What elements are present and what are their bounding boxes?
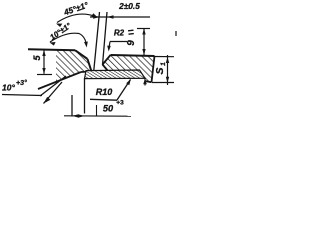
dimension 9 text rotated: [126, 40, 137, 46]
R10 underline: [90, 98, 117, 101]
right plate hatched slab: [103, 55, 155, 82]
svg-text:50: 50: [103, 104, 114, 114]
svg-text:+3: +3: [116, 100, 124, 107]
gap extension line left: [94, 12, 100, 71]
dimension 5: vertical line with arrows: [37, 50, 52, 75]
svg-text:R10: R10: [96, 87, 113, 97]
left plate sloped underside: [38, 72, 81, 89]
dimension 50 extension line right: [84, 78, 86, 113]
angle 10 deg arc dimension: [50, 33, 88, 47]
right plate right edge: [152, 56, 155, 82]
R2 leader: [107, 42, 127, 52]
stray tick right edge: [175, 31, 177, 36]
dimension 2 +-0.5 line with arrows: [90, 15, 150, 18]
left plate 45 deg bevel: [75, 50, 88, 59]
S1 dimension: [152, 55, 174, 85]
gap extension line right: [103, 12, 108, 65]
S1 text rotated: [154, 62, 167, 75]
angle 10+3 leader: [40, 76, 66, 104]
svg-text:R2: R2: [114, 29, 125, 38]
svg-text:5: 5: [32, 55, 42, 61]
svg-text:+3°: +3°: [16, 79, 27, 87]
backing strip hatched: [85, 70, 146, 79]
svg-text:9: 9: [126, 40, 137, 46]
dimension 9 vertical line: [137, 29, 150, 56]
svg-text:S: S: [154, 67, 166, 74]
left plate hatched body: [56, 51, 92, 83]
svg-text:2±0.5: 2±0.5: [118, 1, 140, 11]
angle 10+3 underline: [2, 95, 42, 96]
right plate lower bevel of beak: [103, 65, 115, 79]
left plate bottom edge: [81, 71, 92, 74]
angle 45 deg arc dimension: [56, 13, 98, 27]
dimension 50 extension line left: [71, 95, 73, 117]
right plate bottom edge visible at right: [145, 81, 152, 82]
left plate top surface line: [28, 48, 75, 51]
left plate 10 deg root wall: [88, 59, 92, 72]
arrow under strip right corner: [143, 79, 147, 86]
right plate upper bevel of beak: [103, 55, 111, 65]
right plate top edge: [111, 55, 155, 56]
svg-text:1: 1: [160, 62, 167, 66]
svg-text:10°: 10°: [2, 83, 15, 93]
dimension 50 line with arrows: [64, 105, 131, 118]
R10 leader: [117, 79, 131, 100]
